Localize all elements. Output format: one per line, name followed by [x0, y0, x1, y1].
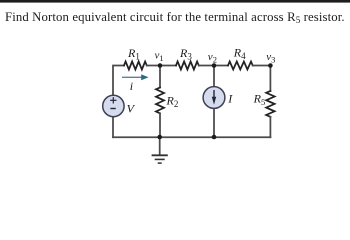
wire source bottom	[112, 117, 114, 137]
svg-text:i: i	[130, 79, 133, 93]
wire v2 to R4	[214, 65, 228, 67]
svg-text:Find Norton equivalent circuit: Find Norton equivalent circuit for the t…	[5, 10, 345, 25]
node v2 dot	[212, 63, 217, 68]
wire R5 to bottom	[269, 117, 271, 137]
ground stub	[159, 137, 161, 154]
wire R4 to v3	[253, 65, 271, 67]
ground	[152, 155, 168, 163]
bottom node dot (current source)	[212, 135, 217, 140]
wire v2 down to current source	[213, 66, 215, 87]
resistor R1	[124, 62, 147, 70]
wire v3 down to R5	[269, 66, 271, 92]
wire R2 to bottom	[159, 114, 161, 138]
voltage source V1	[103, 95, 124, 116]
current arrow i	[122, 74, 149, 80]
wire current source to bottom	[213, 109, 215, 138]
wire bottom	[113, 136, 270, 138]
node v1 dot	[158, 63, 163, 68]
wire v1 to R2	[159, 66, 161, 88]
resistor R2	[156, 88, 164, 114]
resistor R5	[266, 91, 274, 117]
bottom node dot (ground)	[157, 135, 162, 140]
labels	[127, 45, 276, 115]
wire R1 to v1	[147, 65, 160, 67]
node v3 dot	[268, 63, 273, 68]
wire v1 to R3	[160, 65, 176, 67]
top border bar	[0, 0, 350, 3]
resistor R4	[228, 62, 253, 70]
resistor R3	[176, 62, 199, 70]
current source I1	[203, 87, 225, 109]
wire R3 to v2	[199, 65, 214, 67]
wire top-left segment	[113, 66, 124, 96]
